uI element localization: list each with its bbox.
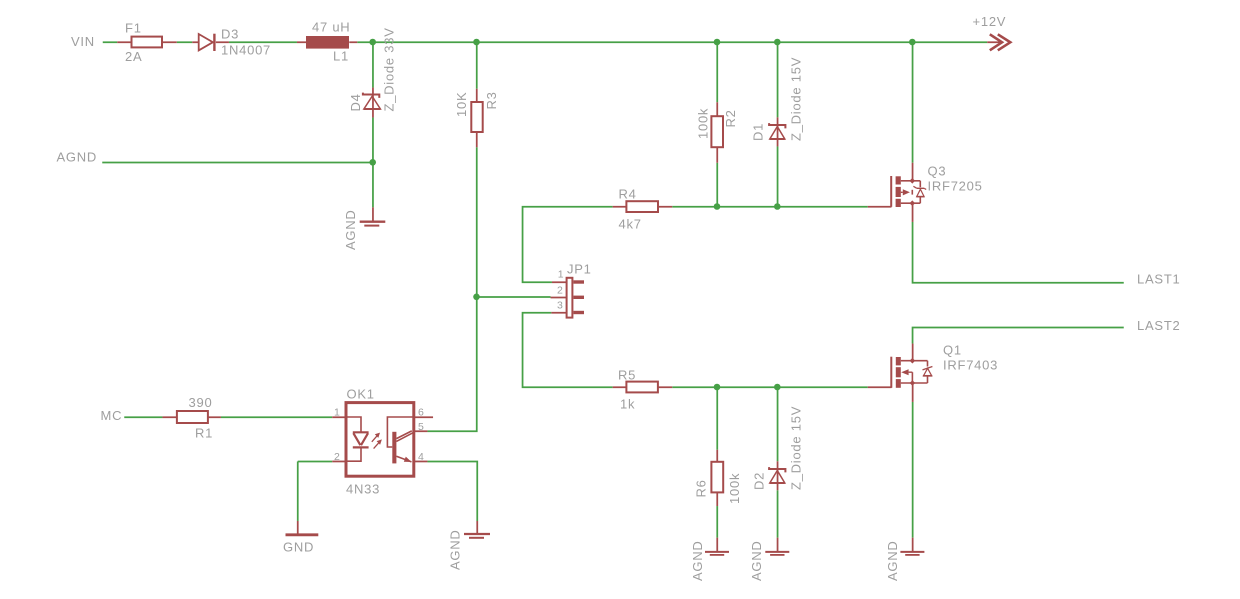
- svg-text:OK1: OK1: [347, 386, 375, 401]
- svg-text:D1: D1: [751, 123, 766, 141]
- svg-text:47 uH: 47 uH: [312, 20, 350, 35]
- svg-text:Z_Diode 33V: Z_Diode 33V: [382, 27, 397, 111]
- svg-text:IRF7205: IRF7205: [928, 179, 983, 194]
- svg-text:GND: GND: [283, 540, 314, 555]
- svg-text:LAST2: LAST2: [1137, 318, 1181, 333]
- svg-text:390: 390: [189, 395, 213, 410]
- svg-text:6: 6: [418, 407, 425, 419]
- svg-text:2A: 2A: [125, 49, 142, 64]
- svg-text:AGND: AGND: [690, 540, 705, 581]
- svg-text:R2: R2: [723, 109, 738, 127]
- svg-text:5: 5: [418, 421, 425, 433]
- svg-text:3: 3: [557, 300, 564, 312]
- svg-text:4N33: 4N33: [346, 481, 380, 496]
- svg-text:AGND: AGND: [343, 209, 358, 250]
- svg-text:1k: 1k: [620, 397, 635, 412]
- svg-text:10K: 10K: [454, 92, 469, 117]
- svg-text:AGND: AGND: [448, 529, 463, 570]
- svg-text:AGND: AGND: [57, 150, 98, 165]
- svg-text:R5: R5: [618, 368, 636, 383]
- svg-text:R6: R6: [694, 479, 709, 497]
- svg-text:2: 2: [334, 451, 341, 463]
- svg-text:R4: R4: [619, 187, 637, 202]
- svg-text:IRF7403: IRF7403: [943, 358, 998, 373]
- svg-text:D2: D2: [751, 472, 766, 490]
- svg-text:AGND: AGND: [749, 540, 764, 581]
- svg-text:R1: R1: [195, 426, 213, 441]
- svg-text:Z_Diode 15V: Z_Diode 15V: [788, 57, 803, 141]
- svg-text:D3: D3: [221, 27, 239, 42]
- svg-text:D4: D4: [348, 93, 363, 111]
- svg-text:2: 2: [557, 285, 564, 297]
- svg-text:1: 1: [558, 269, 565, 281]
- svg-text:Z_Diode 15V: Z_Diode 15V: [788, 406, 803, 490]
- svg-text:1N4007: 1N4007: [221, 43, 271, 58]
- svg-text:AGND: AGND: [885, 540, 900, 581]
- svg-text:VIN: VIN: [71, 34, 95, 49]
- svg-text:LAST1: LAST1: [1137, 272, 1181, 287]
- svg-text:F1: F1: [125, 21, 142, 36]
- svg-text:100k: 100k: [695, 108, 710, 139]
- svg-text:1: 1: [334, 407, 341, 419]
- svg-text:Q1: Q1: [943, 343, 962, 358]
- svg-text:R3: R3: [484, 91, 499, 109]
- svg-text:MC: MC: [101, 408, 123, 423]
- svg-text:4k7: 4k7: [619, 217, 642, 232]
- svg-text:+12V: +12V: [973, 14, 1007, 29]
- svg-text:100k: 100k: [727, 473, 742, 504]
- svg-text:4: 4: [418, 451, 425, 463]
- svg-text:JP1: JP1: [567, 262, 592, 277]
- svg-text:Q3: Q3: [928, 164, 947, 179]
- svg-text:L1: L1: [333, 49, 349, 64]
